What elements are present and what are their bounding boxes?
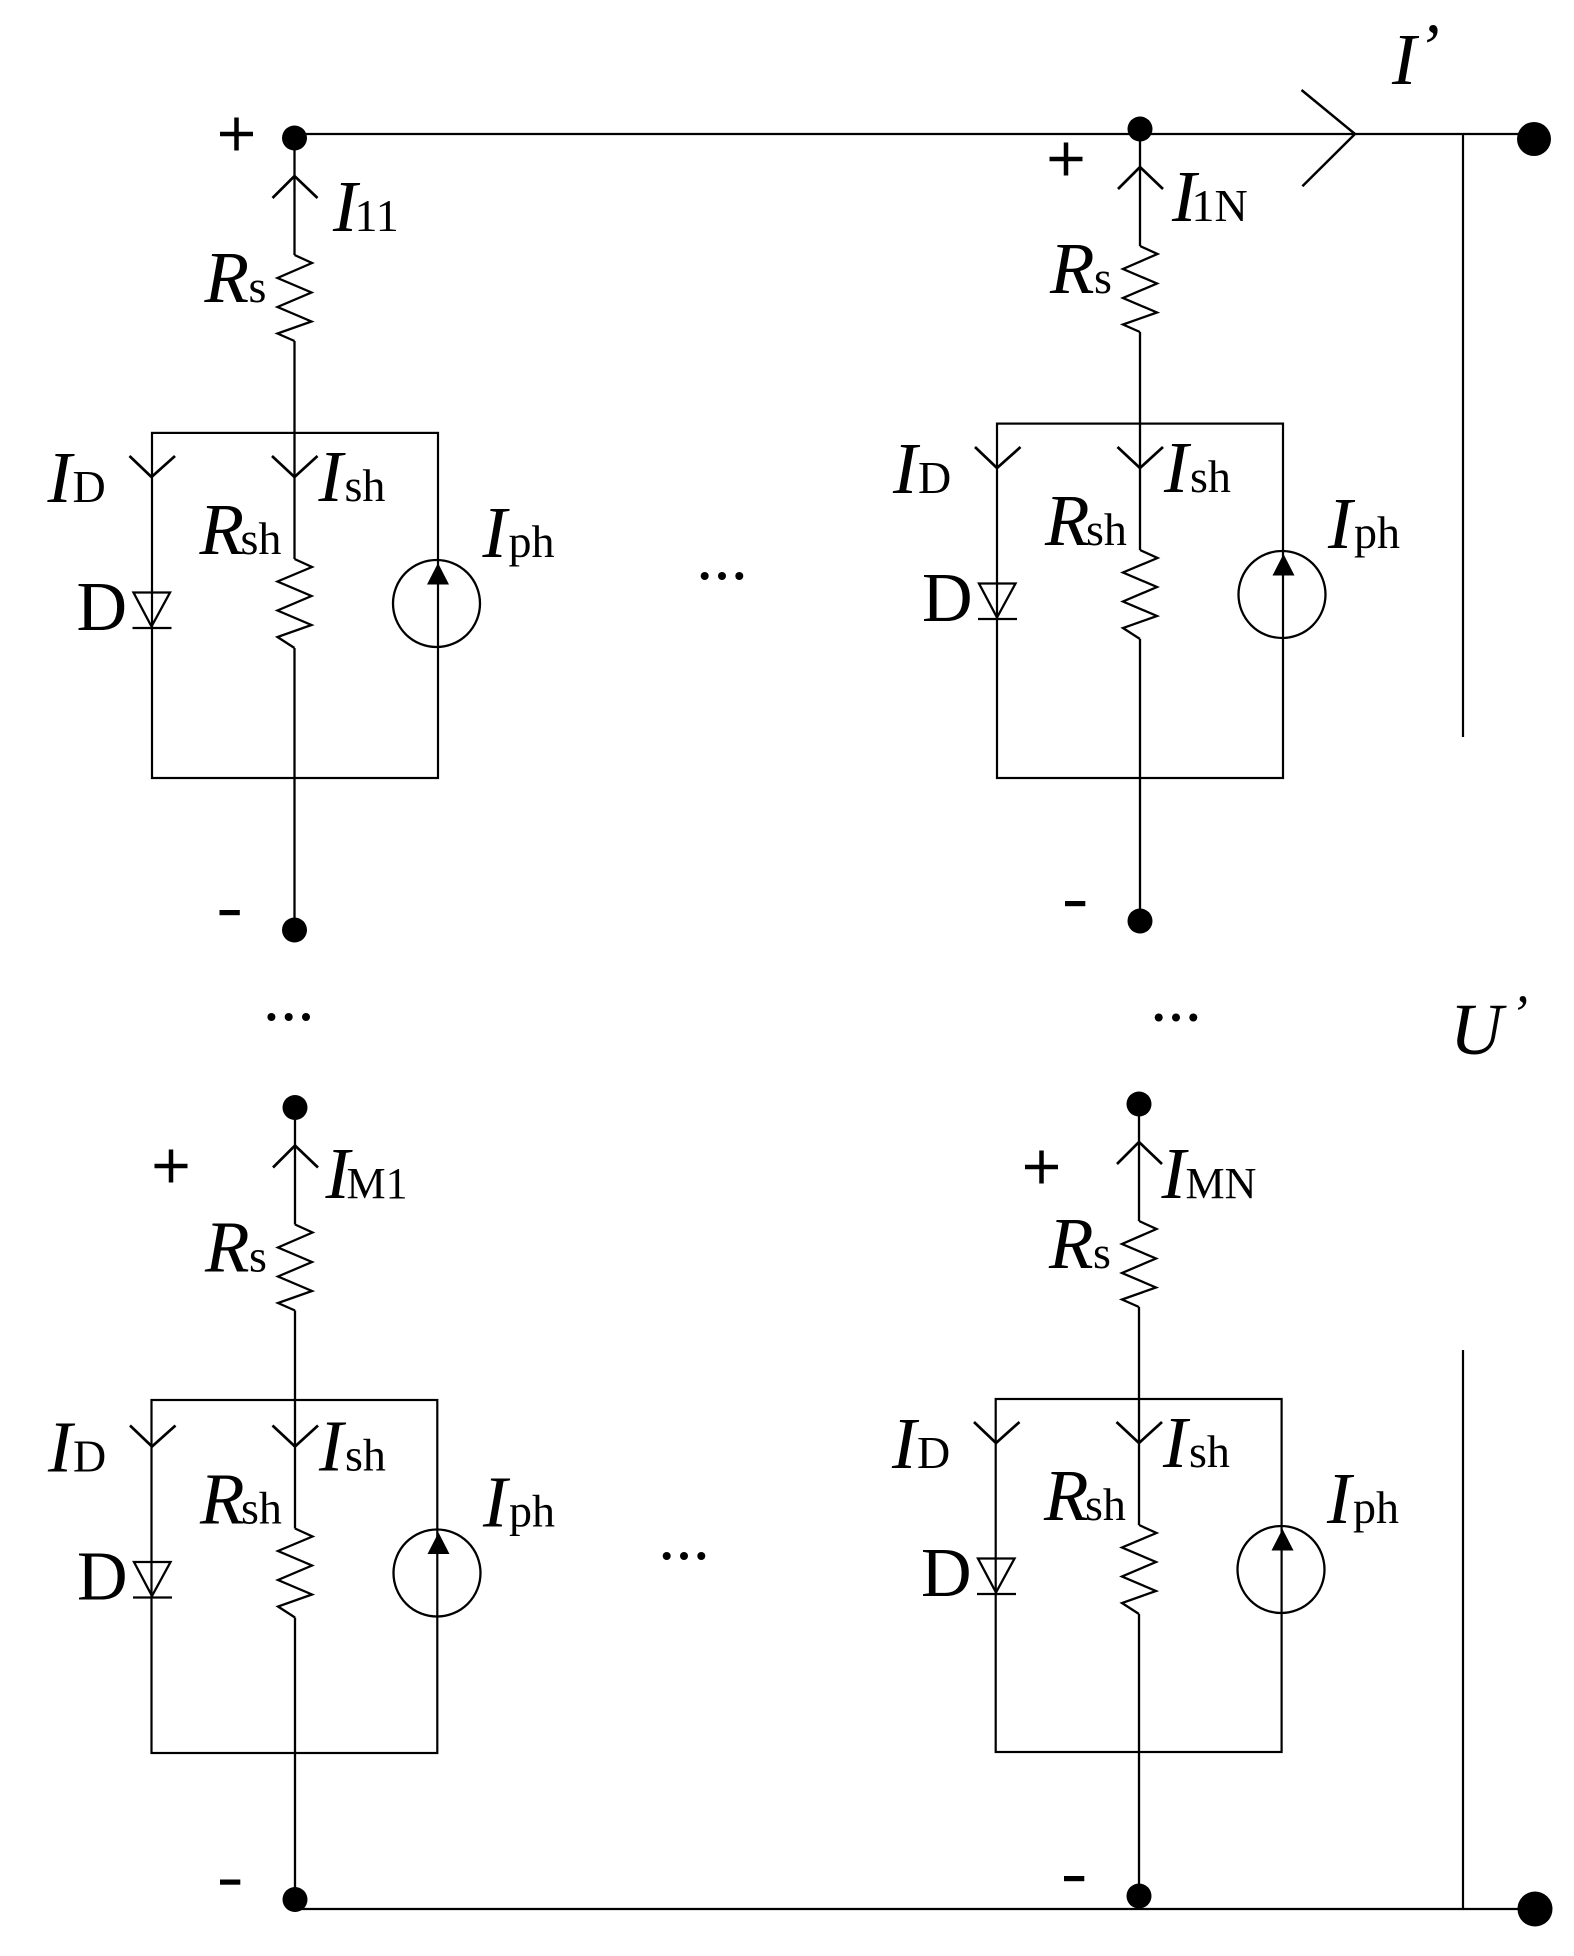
svg-text:11: 11 — [355, 190, 399, 241]
svg-text:M1: M1 — [347, 1159, 408, 1208]
svg-text:1N: 1N — [1192, 180, 1248, 231]
svg-text:U: U — [1450, 989, 1507, 1070]
svg-text:MN: MN — [1186, 1159, 1257, 1208]
svg-text:’: ’ — [1510, 984, 1528, 1044]
svg-text:I: I — [1391, 19, 1420, 100]
svg-text:’: ’ — [1417, 9, 1440, 85]
